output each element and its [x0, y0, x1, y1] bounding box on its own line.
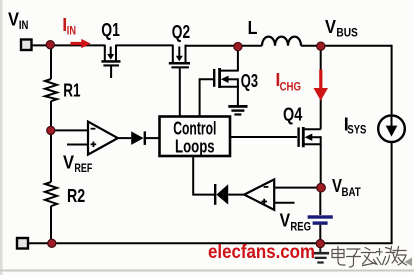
node after Q2 [234, 43, 242, 51]
control loops box U2 [160, 117, 231, 157]
svg-text:V: V [325, 17, 336, 37]
watermark chinese characters [332, 247, 407, 268]
wire Q4 source down to VBAT node [320, 144, 322, 188]
mouse cursor mark [405, 258, 413, 267]
transistor Q1 (PMOS pass) [101, 45, 120, 78]
wire op-amp U3 minus input to VBAT node [274, 187, 321, 189]
wire control box right to Q4 gate [230, 136, 297, 138]
terminal square VIN [21, 40, 32, 51]
svg-text:V: V [332, 176, 342, 196]
svg-text:REG: REG [290, 221, 311, 233]
wire Q3 gate to control box [200, 79, 214, 116]
wire left rail: top node through R1 R2 to bottom node [50, 44, 52, 79]
op-amp U3 (battery amp VREG, points left) [244, 179, 274, 209]
node VIN junction [46, 41, 54, 49]
svg-text:Loops: Loops [175, 136, 215, 156]
wire VREF stub to op-amp plus input [67, 144, 88, 146]
wire top rail: terminal to Q1 [30, 44, 105, 46]
wire battery to bottom rail [319, 225, 321, 244]
wire VBUS drop to Q4 drain [320, 46, 322, 130]
svg-text:Q1: Q1 [101, 20, 120, 40]
wire control box bottom to diode D2 row [193, 156, 214, 195]
svg-text:elecfans.com: elecfans.com [208, 242, 315, 263]
ground (Q3 source) [228, 105, 247, 116]
svg-text:V: V [8, 9, 19, 29]
wire op-amp output to diode D1 [118, 137, 131, 139]
svg-text:L: L [248, 18, 258, 38]
wire op-amp U3 plus input stub [274, 202, 294, 204]
current arrow IIN [71, 39, 91, 48]
wire VBAT node down to battery [319, 188, 321, 215]
wire diode D1 to control box [146, 137, 159, 139]
wire top rail: Q1 to Q2 [116, 44, 173, 46]
resistor R1 [45, 79, 57, 101]
current arrow ICHG [314, 70, 329, 101]
svg-text:Q4: Q4 [283, 105, 302, 125]
svg-text:REF: REF [74, 163, 92, 175]
node bottom left [48, 239, 56, 247]
op-amp U1 (error amp VREF) [88, 122, 118, 155]
svg-text:SYS: SYS [347, 125, 366, 137]
node VBAT [317, 183, 326, 192]
svg-text:Q2: Q2 [172, 22, 190, 42]
current source ISYS [378, 115, 405, 142]
svg-text:R1: R1 [63, 80, 80, 100]
ground (battery, below bottom rail) [312, 243, 330, 263]
svg-text:Q3: Q3 [241, 71, 258, 91]
svg-text:V: V [280, 210, 291, 230]
wire right rail above current source [391, 45, 393, 116]
transistor Q2 (PMOS pass) [169, 45, 190, 116]
svg-text:BAT: BAT [342, 187, 361, 199]
node divider R1/R2 [47, 126, 55, 134]
inductor L [262, 37, 301, 46]
wire divider node to op-amp minus input [51, 129, 88, 131]
node battery bottom [316, 240, 324, 248]
svg-text:BUS: BUS [336, 27, 358, 39]
svg-text:R2: R2 [67, 186, 85, 206]
wire top rail: Q2 to inductor (through node) [186, 45, 263, 47]
svg-text:CHG: CHG [280, 82, 301, 94]
svg-text:V: V [63, 153, 74, 173]
wire top rail: inductor to VBUS node to right rail [301, 45, 392, 47]
frame edge left [0, 0, 3, 275]
terminal square bottom left [17, 238, 28, 249]
frame edge bottom [0, 270, 414, 272]
wire node after Q2 down to Q3 drain [237, 47, 239, 72]
node VBUS [317, 42, 325, 50]
transistor Q4 (NMOS) [299, 127, 321, 147]
battery BT1 [308, 215, 333, 224]
wire diode D2 to op-amp U3 output [228, 194, 244, 196]
svg-text:IN: IN [67, 25, 76, 37]
resistor R2 [45, 182, 57, 206]
wire right rail below current source [391, 142, 393, 243]
wire bottom rail [29, 242, 393, 244]
svg-text:IN: IN [19, 20, 29, 32]
diode D1 [131, 131, 145, 145]
diode D2 [215, 184, 228, 205]
transistor Q3 (NMOS to ground) [200, 68, 238, 116]
